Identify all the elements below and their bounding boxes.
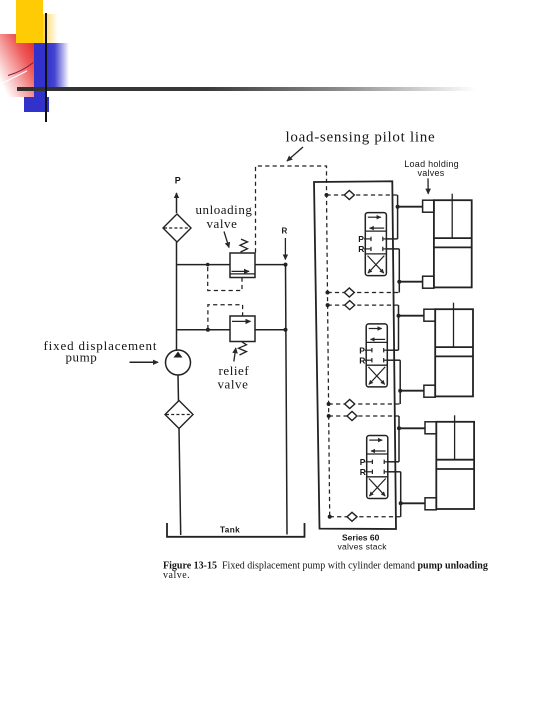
node junction R line relief bbox=[284, 328, 288, 332]
wire load-sensing dashed trunk bbox=[256, 166, 330, 517]
svg-text:R: R bbox=[282, 226, 288, 235]
load holding valve bottom box cylinder 3 bbox=[425, 498, 436, 510]
check valve diamond section 3 out bbox=[347, 512, 357, 521]
wire P exit valve 3 bbox=[388, 461, 399, 463]
check valve diamond section 3 in bbox=[347, 412, 357, 421]
decorative yellow fade bbox=[43, 14, 58, 43]
node R drop junction section 1 bbox=[397, 280, 401, 284]
cylinder 2 body bbox=[435, 309, 473, 396]
cylinder 1 body bbox=[434, 200, 472, 287]
wire R drop section 3 bbox=[400, 472, 402, 517]
svg-text:fixed displacement: fixed displacement bbox=[44, 338, 158, 353]
directional valve V1 arrow left bbox=[370, 227, 385, 229]
cylinder 1 piston bbox=[434, 237, 472, 239]
directional valve V2 arrow left bbox=[371, 338, 386, 340]
svg-text:load-sensing pilot line: load-sensing pilot line bbox=[286, 130, 436, 146]
svg-text:P: P bbox=[175, 176, 181, 186]
wire R exit valve 2 bbox=[387, 359, 400, 361]
directional valve V1 P port stubs bbox=[364, 238, 371, 240]
svg-text:pump: pump bbox=[66, 350, 98, 365]
wire cylinder 1 cap-end line bbox=[398, 206, 423, 208]
wire cylinder 2 cap-end line bbox=[399, 315, 424, 317]
directional valve V3 body bbox=[367, 436, 388, 499]
wire P exit valve 1 bbox=[386, 238, 397, 240]
node R drop junction section 3 bbox=[399, 501, 403, 505]
wire R arrow down bbox=[284, 238, 286, 260]
directional valve V3 P port stubs bbox=[365, 461, 372, 463]
directional valve V2 P port stubs bbox=[365, 349, 372, 351]
relief valve RV box bbox=[230, 316, 255, 342]
wire unloading valve to R line bbox=[255, 264, 286, 266]
directional valve V3 arrow left bbox=[371, 450, 386, 452]
directional valve V3 crossed X box bbox=[369, 479, 385, 497]
load holding valve top box cylinder 1 bbox=[423, 200, 434, 212]
decorative vertical black line bbox=[45, 13, 47, 123]
filter F2 diamond bbox=[165, 401, 193, 429]
wire cylinder 3 cap-end line bbox=[399, 427, 425, 429]
wire load-sensing dashed feeder section 2 bbox=[328, 304, 399, 306]
wire relief valve to R line bbox=[255, 329, 286, 331]
load holding valve bottom box cylinder 2 bbox=[424, 385, 435, 397]
svg-text:P: P bbox=[360, 457, 366, 467]
load holding valve top box cylinder 3 bbox=[425, 422, 436, 434]
directional valve V2 compartment dividers bbox=[366, 341, 387, 343]
check valve diamond section 2 out bbox=[345, 400, 355, 409]
wire supply to unloading valve bbox=[177, 264, 231, 266]
wire filter F2 to tank bbox=[179, 428, 181, 535]
cylinder 2 piston bbox=[435, 346, 473, 348]
wire pump to filter F2 bbox=[177, 375, 180, 402]
wire R exit valve 1 bbox=[386, 248, 399, 250]
node P riser junction section 2 bbox=[397, 314, 401, 318]
filter F1 diamond bbox=[163, 214, 191, 242]
pump P1 circle bbox=[166, 350, 191, 375]
directional valve V1 compartment dividers bbox=[365, 230, 386, 232]
directional valve V2 body bbox=[366, 324, 387, 387]
node R drop junction section 2 bbox=[398, 389, 402, 393]
check valve diamond section 1 out bbox=[344, 288, 354, 297]
unloading valve UV pilot dashed bbox=[208, 266, 242, 291]
check valve diamond section 1 in bbox=[344, 191, 354, 200]
svg-text:unloading: unloading bbox=[196, 202, 253, 217]
unloading valve UV internal lower line bbox=[230, 273, 255, 275]
cylinder 3 rod bbox=[454, 415, 456, 459]
svg-text:Figure 13-15 Fixed displaceme: Figure 13-15 Fixed displacement pump wit… bbox=[163, 561, 488, 572]
decorative blue step square bbox=[24, 97, 50, 113]
directional valve V2 crossed X box bbox=[368, 367, 384, 385]
unloading valve UV spring bbox=[240, 239, 248, 252]
directional valve V3 compartment dividers bbox=[367, 453, 388, 455]
node rail junction section 1 out bbox=[326, 291, 330, 295]
node rail junction section 2 out bbox=[327, 402, 331, 406]
filter F2 dashed element bbox=[166, 414, 192, 416]
directional valve V3 R port stubs bbox=[365, 471, 372, 473]
load holding valve bottom box cylinder 1 bbox=[423, 276, 434, 288]
svg-text:valves stack: valves stack bbox=[338, 542, 388, 552]
svg-text:valve.: valve. bbox=[163, 570, 190, 581]
node P riser junction section 1 bbox=[396, 205, 400, 209]
wire leader arrow to pilot line bbox=[287, 147, 303, 161]
svg-text:Tank: Tank bbox=[220, 526, 240, 535]
valve stack outer box bbox=[314, 181, 396, 529]
decorative swoosh dark curve bbox=[0, 34, 40, 97]
wire R exit valve 3 bbox=[388, 471, 401, 473]
cylinder 1 rod bbox=[451, 194, 453, 238]
directional valve V1 R port stubs bbox=[364, 248, 371, 250]
svg-text:R: R bbox=[360, 467, 366, 477]
wire leader arrow pump bbox=[130, 361, 159, 363]
relief valve RV spring bbox=[239, 342, 247, 355]
pump P1 triangle bbox=[174, 352, 183, 358]
wire leader arrow unloading valve bbox=[224, 232, 229, 248]
wire R return vertical bbox=[286, 265, 288, 535]
load holding valve top box cylinder 2 bbox=[424, 309, 435, 321]
wire R drop section 1 bbox=[398, 249, 400, 293]
directional valve V3 arrow right bbox=[369, 439, 382, 441]
node pilot tap unloading bbox=[206, 263, 210, 267]
node rail junction section 2 in bbox=[326, 303, 330, 307]
svg-text:R: R bbox=[358, 244, 364, 254]
decorative horizontal rule gradient bbox=[17, 87, 490, 91]
svg-text:valves: valves bbox=[418, 168, 445, 178]
wire cylinder 3 rod-end line bbox=[401, 502, 425, 504]
node rail junction section 3 in bbox=[327, 414, 331, 418]
wire leader arrow load holding bbox=[427, 178, 429, 193]
node pilot tap relief bbox=[206, 328, 210, 332]
wire P arrow up bbox=[176, 193, 178, 213]
wire load-sensing dashed return section 2 bbox=[329, 403, 401, 405]
wire R drop section 2 bbox=[399, 360, 401, 404]
svg-text:valve: valve bbox=[218, 377, 249, 392]
cylinder 2 rod bbox=[453, 303, 455, 347]
wire cylinder 1 rod-end line bbox=[399, 281, 422, 283]
decorative yellow bar bbox=[16, 0, 43, 43]
decorative blue fade bbox=[46, 43, 70, 89]
wire cylinder 2 rod-end line bbox=[400, 390, 424, 392]
cylinder 3 body bbox=[436, 422, 474, 509]
svg-text:R: R bbox=[359, 355, 365, 365]
cylinder 3 piston bbox=[436, 459, 474, 461]
unloading valve UV internal arrow bbox=[232, 270, 250, 272]
wire supply riser upper bbox=[176, 242, 178, 351]
svg-text:P: P bbox=[359, 345, 365, 355]
wire load-sensing dashed return section 1 bbox=[328, 292, 400, 294]
check valve diamond section 2 in bbox=[345, 301, 355, 310]
unloading valve UV box bbox=[230, 253, 255, 278]
node P riser junction section 3 bbox=[397, 426, 401, 430]
wire load-sensing dashed feeder section 3 bbox=[329, 415, 399, 417]
wire P riser section 2 bbox=[398, 305, 400, 350]
directional valve V2 arrow right bbox=[369, 328, 382, 330]
wire load-sensing dashed return section 3 bbox=[330, 516, 401, 518]
wire leader arrow relief valve bbox=[234, 348, 236, 362]
svg-text:P: P bbox=[358, 234, 364, 244]
decorative pink gradient square bbox=[0, 34, 34, 97]
node rail junction section 3 out bbox=[328, 515, 332, 519]
directional valve V1 arrow right bbox=[368, 216, 381, 218]
tank symbol bbox=[167, 523, 305, 537]
wire load-sensing dashed feeder section 1 bbox=[327, 194, 398, 196]
wire supply to relief valve bbox=[177, 329, 231, 331]
directional valve V1 crossed X box bbox=[368, 256, 384, 274]
wire P riser section 3 bbox=[398, 416, 400, 462]
relief valve RV pilot dashed bbox=[208, 305, 243, 329]
relief valve RV internal arrow bbox=[232, 320, 251, 322]
directional valve V1 body bbox=[365, 213, 386, 276]
wire P riser section 1 bbox=[397, 195, 399, 239]
svg-text:valve: valve bbox=[207, 216, 238, 231]
decorative blue bar bbox=[34, 43, 45, 112]
directional valve V2 R port stubs bbox=[365, 359, 372, 361]
node junction R line unloading bbox=[284, 263, 288, 267]
filter F1 dashed element bbox=[164, 227, 190, 229]
node rail junction section 1 in bbox=[325, 193, 329, 197]
wire P exit valve 2 bbox=[387, 349, 398, 351]
